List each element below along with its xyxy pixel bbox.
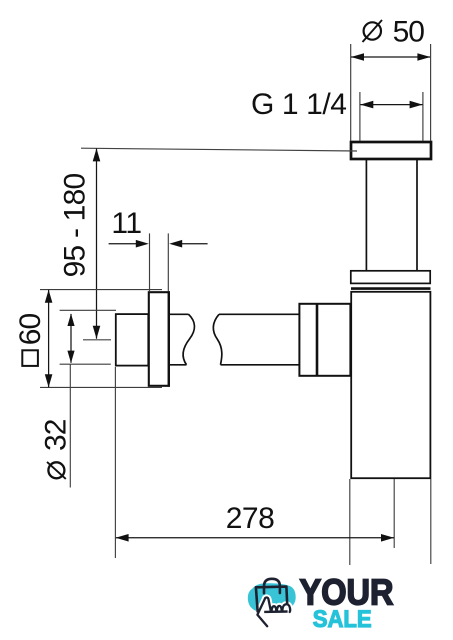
dimension 278: left extension line xyxy=(114,367,116,558)
logo: teal blob xyxy=(248,583,296,613)
trap body xyxy=(351,292,430,478)
tailpipe of trap xyxy=(366,160,417,271)
leader line for Ø32 xyxy=(69,364,71,487)
dimension G 1 1/4: extension lines xyxy=(360,92,423,141)
svg-text:278: 278 xyxy=(226,502,275,535)
dimension 11: extension lines above wall flange xyxy=(150,233,169,291)
dimension G 1 1/4: dimension line with arrows xyxy=(360,101,422,109)
logo: clicking hand white fill xyxy=(258,598,290,626)
logo: shopping bag body xyxy=(256,587,287,613)
svg-text:32: 32 xyxy=(40,419,73,451)
seam band xyxy=(351,287,431,290)
svg-text:11: 11 xyxy=(111,207,141,240)
dimension Ø50: extension lines xyxy=(351,44,431,141)
logo: shopping bag handle xyxy=(264,579,280,593)
svg-text:60: 60 xyxy=(14,314,47,346)
svg-text:G 1 1/4: G 1 1/4 xyxy=(251,88,347,121)
label square 60 (rotated) xyxy=(14,314,47,366)
wall socket (square body) xyxy=(116,314,149,366)
centerline tick of inlet axis xyxy=(83,339,111,341)
label Ø 32 (rotated) xyxy=(40,419,73,479)
dimension 60: vertical line with arrows xyxy=(45,290,53,388)
logo: shopping bag bottom edge xyxy=(264,610,287,613)
inlet pipe left segment with break xyxy=(170,314,194,365)
dimension Ø50: dimension line with arrows xyxy=(351,53,430,61)
dimension 278: dimension line with arrows xyxy=(116,534,394,542)
top reference line for 95-180 xyxy=(81,148,357,151)
dimension 95-180: vertical line with arrows xyxy=(93,148,101,338)
nut of trap xyxy=(351,271,430,284)
dimension pipe height: vertical line with arrows xyxy=(67,314,74,363)
dimension pipe height: extension lines xyxy=(60,310,116,364)
svg-text:50: 50 xyxy=(393,15,425,48)
svg-text:SALE: SALE xyxy=(313,606,372,633)
extension lines below trap body xyxy=(350,479,431,565)
dimension 11: leader lines with arrows xyxy=(109,240,208,248)
svg-text:95 - 180: 95 - 180 xyxy=(59,174,92,278)
inlet pipe right segment with break xyxy=(213,314,299,365)
wall flange (rosette) xyxy=(149,292,169,386)
logo: clicking hand white halo xyxy=(257,598,290,627)
dimension 60: extension lines xyxy=(40,290,162,388)
label Ø 50 xyxy=(363,15,425,48)
logo: clicking hand outline xyxy=(257,598,290,627)
flange top plate of trap xyxy=(351,142,431,159)
inlet sleeve on trap body xyxy=(299,304,350,376)
